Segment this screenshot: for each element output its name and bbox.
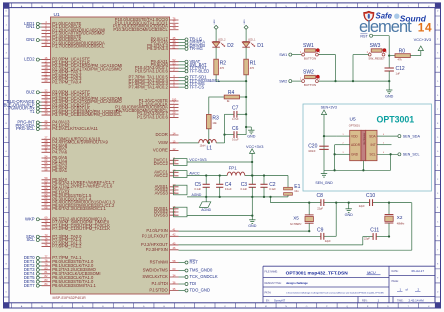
wire D2 to R2 — [215, 47, 217, 59]
svg-text:PJ.5/TDO: PJ.5/TDO — [149, 288, 168, 293]
title file name — [265, 270, 349, 276]
svg-text:P1.7/UCB0SOMI/UCB0SCL: P1.7/UCB0SOMI/UCB0SCL — [52, 44, 105, 49]
resistor R0 — [390, 48, 420, 61]
wire HFXOUT with C11 — [179, 237, 390, 245]
junction X5 top — [308, 201, 310, 203]
resistor R2 — [214, 59, 227, 75]
svg-text:2: 2 — [342, 143, 343, 145]
svg-text:GND: GND — [385, 94, 394, 98]
svg-text:10u: 10u — [294, 189, 299, 193]
terminal TFT-CS — [179, 84, 205, 89]
svg-text:TR-HG: TR-HG — [190, 46, 203, 51]
svg-text:U5: U5 — [350, 117, 356, 123]
junction C6 left rail — [223, 133, 225, 135]
resistor R1 — [244, 59, 257, 75]
wire U5 pad pin — [324, 161, 391, 171]
svg-text:14: 14 — [418, 20, 432, 34]
capacitor C20 — [308, 144, 329, 153]
svg-text:GND: GND — [351, 153, 359, 157]
svg-text:GN1: GN1 — [26, 24, 35, 29]
svg-text:LED_2: LED_2 — [218, 38, 226, 41]
terminal TFT-RST — [179, 65, 208, 70]
svg-text:VCC+3V3: VCC+3V3 — [414, 37, 431, 42]
svg-text:1uF: 1uF — [396, 72, 401, 76]
svg-text:GND: GND — [247, 135, 256, 139]
wire SW2 to rail — [318, 80, 335, 82]
wire U5 VDD pin 1 — [324, 134, 350, 136]
title by — [266, 299, 286, 303]
svg-text:SW2: SW2 — [303, 70, 314, 76]
terminal PGM/OUR-Rx — [8, 106, 41, 111]
svg-text:DCOR: DCOR — [155, 132, 167, 137]
svg-text:X5: X5 — [293, 215, 299, 220]
power VCC+3V3 at R0 — [414, 37, 431, 56]
terminal TR-LG — [179, 37, 203, 42]
wire AGND rail to DGND — [251, 197, 253, 216]
svg-text:P10.5/TA3.1/C0.6: P10.5/TA3.1/C0.6 — [135, 68, 169, 73]
svg-text:SEN_SDA: SEN_SDA — [403, 134, 421, 138]
svg-text:1: 1 — [342, 134, 343, 136]
switch SW3 — [367, 43, 388, 60]
svg-text:SW1: SW1 — [279, 53, 287, 57]
junction pad pin on gnd wire — [362, 169, 364, 171]
terminal RST — [360, 34, 389, 56]
terminal SEN_SCL — [398, 153, 420, 157]
svg-text:48MHz: 48MHz — [397, 223, 405, 226]
junction LED rail / right rail — [245, 80, 247, 82]
svg-text:design challenge: design challenge — [286, 281, 308, 285]
svg-text:RST: RST — [190, 260, 199, 265]
svg-text:E1: E1 — [294, 184, 300, 190]
wire SCL drop to gnd wire — [390, 154, 392, 170]
svg-text:47k: 47k — [398, 58, 403, 62]
svg-text:X2: X2 — [397, 215, 403, 220]
junction GND pin on addr column — [333, 153, 335, 155]
resistor R4 — [209, 90, 247, 103]
svg-text:C3: C3 — [241, 182, 248, 188]
terminal PRG-INT — [17, 120, 41, 125]
terminal BLE-ORANGE — [7, 99, 41, 104]
junction SW3 drop on rail — [352, 80, 354, 82]
svg-text:D1: D1 — [257, 43, 264, 49]
terminal DET3 — [24, 267, 42, 272]
junction gnd tap on rail — [348, 201, 350, 203]
svg-text:C4: C4 — [225, 182, 232, 188]
svg-text:T1: T1 — [30, 109, 36, 114]
svg-text:P2.7/PM_TA0.4: P2.7/PM_TA0.4 — [52, 79, 82, 84]
U1 left pin stubs with pin numbers — [42, 20, 51, 286]
junction C3 bottom — [251, 196, 253, 198]
svg-text:P7.6/PM_TA1.2: P7.6/PM_TA1.2 — [52, 244, 82, 249]
junction C5 top — [205, 174, 207, 176]
svg-text:P9.3/TA3.4: P9.3/TA3.4 — [147, 46, 168, 51]
capacitor C12 — [385, 56, 405, 90]
junction C4 bottom — [219, 196, 221, 198]
capacitor C6 — [225, 126, 247, 141]
svg-text:06-Jul-17: 06-Jul-17 — [412, 269, 425, 273]
svg-text:P8.6/UCB3SOMI/TA1.1: P8.6/UCB3SOMI/TA1.1 — [52, 283, 96, 288]
svg-text:C:\Users\element14\design chal: C:\Users\element14\design challenge\2017… — [286, 292, 384, 295]
wire HFXIN bottom loop — [179, 203, 412, 251]
svg-text:PATH:: PATH: — [265, 292, 272, 295]
terminal LED1 — [24, 21, 41, 26]
wire LED common rail — [216, 80, 246, 82]
terminal GN1 — [26, 24, 42, 29]
terminal SW1 input — [279, 53, 302, 57]
microcontroller U1 body — [51, 17, 170, 294]
capacitor C7 — [225, 106, 247, 121]
terminal SW2 input — [279, 79, 302, 83]
terminal TFT-SD1 — [179, 75, 208, 80]
OPT3001 subcircuit box — [303, 104, 432, 191]
svg-text:C11: C11 — [370, 227, 379, 233]
svg-text:GND: GND — [345, 213, 354, 217]
svg-text:100nF: 100nF — [308, 149, 316, 153]
logo amp circle — [394, 14, 399, 19]
terminal DET5 — [24, 275, 42, 280]
svg-text:of: of — [406, 288, 409, 292]
terminal BUZ — [26, 89, 41, 94]
wire D1 anode — [245, 29, 247, 41]
svg-text:0.1uF: 0.1uF — [232, 137, 239, 141]
title date — [392, 269, 425, 273]
analog ground AGND symbol — [199, 197, 211, 212]
capacitor C3 — [240, 176, 255, 197]
svg-text:SW3: SW3 — [370, 43, 381, 49]
terminal WKP — [25, 216, 41, 221]
svg-text:2:42:14 AM: 2:42:14 AM — [409, 299, 425, 303]
junction X2 bottom / C11 wire — [388, 235, 390, 237]
svg-text:4.7uF: 4.7uF — [232, 117, 239, 121]
svg-text:PRG-SCL: PRG-SCL — [16, 126, 35, 131]
title path — [265, 292, 385, 295]
svg-text:DVSS3: DVSS3 — [154, 212, 168, 217]
svg-text:PJ.1/LFXOUT: PJ.1/LFXOUT — [142, 233, 169, 238]
svg-text:SWCLKxTCK: SWCLKxTCK — [142, 274, 168, 279]
svg-text:WKP: WKP — [25, 216, 35, 221]
wire DVSS bracket — [174, 207, 253, 217]
svg-text:SEN+3V3: SEN+3V3 — [321, 106, 337, 110]
junction DVSS/AGND drop — [251, 214, 253, 216]
svg-text:470: 470 — [250, 66, 255, 70]
svg-text:4: 4 — [383, 152, 384, 154]
wire right rail — [245, 81, 247, 135]
svg-text:C2: C2 — [269, 182, 276, 188]
svg-text:0.1uF: 0.1uF — [269, 187, 276, 191]
svg-text:SW2: SW2 — [279, 79, 287, 83]
terminal TMS_GND0 — [179, 268, 213, 273]
svg-text:LED2: LED2 — [24, 57, 35, 62]
svg-text:TDI: TDI — [190, 281, 197, 286]
wire C7/C6 left rail — [224, 114, 226, 143]
svg-text:J: J — [204, 306, 205, 308]
terminal T1 — [30, 109, 42, 114]
terminal D1 top — [244, 19, 248, 29]
capacitor C2 — [260, 176, 276, 197]
ground near C6 — [246, 127, 256, 139]
svg-text:BUTTON: BUTTON — [304, 56, 316, 60]
svg-text:GN2: GN2 — [26, 37, 35, 42]
svg-text:P7.2/PM_C1OUT/PM_TA1CLK: P7.2/PM_C1OUT/PM_TA1CLK — [52, 226, 110, 231]
LED D2 — [212, 38, 234, 49]
svg-text:INT: INT — [371, 143, 376, 147]
svg-text:C10: C10 — [366, 193, 375, 199]
svg-text:REV:: REV: — [362, 300, 368, 303]
junction C3 top — [251, 174, 253, 176]
ground crystal GND — [345, 203, 354, 218]
wire U5 SDA pin 6 — [377, 134, 398, 136]
capacitor C11 — [364, 227, 379, 240]
terminal DET2 — [24, 263, 42, 268]
svg-text:P1.5/TA3.1/C0.6: P1.5/TA3.1/C0.6 — [137, 115, 168, 120]
junction C4 top — [219, 174, 221, 176]
junction VCC stem / DVCC wire — [251, 161, 253, 163]
svg-text:470: 470 — [220, 66, 225, 70]
crystal X2 — [385, 203, 406, 237]
junction C2 bottom — [263, 196, 265, 198]
terminal DRIVEB — [179, 43, 206, 48]
switch SW1 — [300, 43, 321, 60]
svg-text:C9: C9 — [317, 227, 324, 233]
svg-text:3: 3 — [342, 152, 343, 154]
ferrite bead FP1 — [227, 165, 245, 175]
U1 left internal pin names — [52, 21, 122, 288]
junction VDD on 3V3 column — [323, 135, 325, 137]
electrolytic capacitor E1 — [284, 176, 301, 197]
svg-text:DESIGN TITLE:: DESIGN TITLE: — [265, 282, 282, 285]
wire U5 GND pin 3 — [335, 152, 350, 154]
terminal DET4 — [24, 271, 42, 276]
svg-text:AGND: AGND — [201, 208, 211, 212]
capacitor C9 — [317, 227, 331, 243]
svg-text:R4: R4 — [228, 90, 235, 96]
svg-text:VCC+3V3: VCC+3V3 — [189, 157, 206, 162]
terminal PRG-SDA — [16, 123, 42, 128]
ground SEN_GND — [315, 170, 333, 185]
svg-text:ADDR: ADDR — [351, 143, 361, 147]
ground below C12 — [385, 90, 394, 98]
terminal SEN_SDA — [398, 134, 421, 138]
svg-text:SCL: SCL — [369, 153, 375, 157]
svg-text:FP1: FP1 — [229, 165, 238, 170]
wire SW1 to junction — [318, 55, 335, 82]
wire R2 bottom — [215, 75, 217, 81]
svg-text:P4.2/ACLK/TA2CLK/A11: P4.2/ACLK/TA2CLK/A11 — [52, 126, 98, 131]
svg-text:C7: C7 — [232, 106, 239, 112]
svg-text:element: element — [359, 18, 412, 36]
terminal DET0 — [24, 255, 42, 260]
wire crystal top rail — [271, 197, 412, 203]
svg-text:AGND: AGND — [192, 193, 202, 197]
svg-text:5: 5 — [383, 143, 384, 145]
svg-text:BUZ: BUZ — [26, 89, 35, 94]
wire DVCC bracket — [174, 159, 253, 166]
svg-text:0.1uF: 0.1uF — [240, 187, 247, 191]
svg-text:OPT3001 msp432_TFT.DSN: OPT3001 msp432_TFT.DSN — [286, 271, 349, 277]
svg-text:TDO_GND: TDO_GND — [190, 288, 210, 293]
svg-text:AVCC: AVCC — [189, 171, 200, 176]
wire button common rail — [336, 80, 390, 82]
terminal VBAT — [179, 59, 201, 64]
svg-text:LED1: LED1 — [244, 19, 246, 24]
svg-text:P7.4/PM_TA1.4/C0.2: P7.4/PM_TA1.4/C0.2 — [129, 84, 169, 89]
terminal PRG-SCL — [16, 126, 42, 131]
svg-text:TCK_GNDCLK: TCK_GNDCLK — [190, 274, 218, 279]
svg-text:C8: C8 — [317, 193, 324, 199]
terminal D2 top — [214, 19, 218, 29]
junction X5 bottom / LFXIN wire — [308, 230, 310, 232]
wire LFXOUT with C9 — [179, 203, 337, 237]
svg-text:D2: D2 — [227, 43, 234, 49]
svg-text:6: 6 — [383, 134, 384, 136]
terminal TFT-MOSI&SCL — [179, 78, 221, 83]
svg-text:VDD: VDD — [351, 134, 358, 138]
svg-text:OPT3001: OPT3001 — [349, 123, 361, 127]
svg-text:C5: C5 — [195, 182, 202, 188]
junction right rail at gnd tap — [245, 126, 247, 128]
svg-text:22pF: 22pF — [317, 207, 323, 211]
junction R3 bottom on VSW wire — [208, 142, 210, 144]
junction top rail / agnd rail — [269, 196, 271, 198]
terminal BLE-ORAN-RLP — [4, 102, 42, 107]
svg-text:SW_RESET: SW_RESET — [368, 56, 385, 60]
svg-text:SWDIOxTMS: SWDIOxTMS — [143, 268, 168, 273]
power SEN+3V3 — [321, 106, 337, 171]
svg-text:32.768kHz: 32.768kHz — [290, 223, 302, 226]
svg-text:0.1uF: 0.1uF — [194, 187, 201, 191]
title time — [397, 299, 424, 303]
terminal TFT-MS — [179, 81, 205, 86]
terminal SDA — [26, 234, 42, 239]
op-amp U5 OPT3001 body — [350, 130, 377, 160]
svg-text:VSW: VSW — [158, 140, 168, 145]
switch SW2 — [300, 70, 321, 87]
terminal TDI — [179, 281, 197, 286]
svg-text:C20: C20 — [308, 144, 317, 150]
svg-text:R2: R2 — [220, 60, 227, 66]
ground DGND — [248, 216, 257, 229]
svg-text:PJ.4/TDI: PJ.4/TDI — [152, 281, 168, 286]
terminal DET6 — [24, 279, 42, 284]
junction rail to C12 column — [388, 80, 390, 82]
svg-text:LED_1: LED_1 — [248, 38, 256, 41]
svg-text:0.1uF: 0.1uF — [225, 187, 232, 191]
svg-text:SDA: SDA — [369, 134, 376, 138]
terminal TFT-BLED — [179, 68, 210, 73]
svg-text:VCC+3V3: VCC+3V3 — [246, 144, 263, 149]
svg-text:SW1: SW1 — [303, 43, 314, 49]
svg-text:TMS_GND0: TMS_GND0 — [190, 268, 213, 273]
svg-text:THERMAL PAD: THERMAL PAD — [362, 133, 365, 146]
terminal LED2 — [24, 57, 41, 62]
svg-text:P10.3/UCB3SOMI/UCB3SCL: P10.3/UCB3SOMI/UCB3SCL — [113, 27, 168, 32]
junction C5 bottom — [205, 196, 207, 198]
wire U5 INT pin 5 — [377, 143, 392, 145]
junction pad/addr gnd node — [333, 169, 335, 171]
title MCU link — [367, 271, 381, 275]
svg-text:P4.7/A6: P4.7/A6 — [52, 149, 68, 154]
svg-text:10k: 10k — [212, 121, 217, 125]
svg-text:22pF: 22pF — [325, 239, 331, 243]
svg-text:DET7: DET7 — [24, 283, 35, 288]
junction VCC stem / AVCC rail — [251, 174, 253, 176]
capacitor C4 — [216, 176, 232, 197]
svg-text:SCL: SCL — [26, 237, 35, 242]
U1 right pin stubs with pin numbers — [170, 16, 179, 291]
junction C7 right rail — [245, 113, 247, 115]
svg-text:AVSS3: AVSS3 — [155, 190, 169, 195]
title rev — [362, 299, 380, 303]
svg-text:L1: L1 — [207, 146, 213, 152]
svg-text:J: J — [204, 6, 205, 8]
terminal GN2 — [26, 37, 42, 42]
svg-text:P5.4/A1: P5.4/A1 — [52, 168, 68, 173]
terminal TR-HG — [179, 46, 203, 51]
svg-text:C6: C6 — [232, 126, 239, 132]
terminal TDO_GND — [179, 288, 210, 293]
svg-text:OPT3001: OPT3001 — [377, 114, 415, 124]
title design title — [265, 281, 309, 285]
power VCC+3V3 arrow near C3 — [246, 144, 263, 176]
svg-text:22pF: 22pF — [359, 204, 365, 208]
wire D1 to R1 — [245, 47, 247, 59]
terminal TCK_GNDCLK — [179, 274, 218, 279]
svg-text:R1: R1 — [250, 60, 257, 66]
capacitor C10 — [359, 193, 376, 208]
svg-text:BY:: BY: — [266, 300, 270, 303]
svg-text:BUTTON: BUTTON — [304, 83, 316, 87]
svg-text:LED2: LED2 — [214, 19, 216, 24]
svg-text:SEN_SCL: SEN_SCL — [403, 153, 420, 157]
wire LFXIN from U1 — [179, 230, 310, 232]
U1 right internal pin names — [113, 17, 169, 293]
svg-text:TFT-CS: TFT-CS — [190, 84, 205, 89]
capacitor C8 — [317, 193, 324, 210]
svg-text:10uH: 10uH — [200, 144, 206, 147]
wire U5 SCL pin 4 — [377, 152, 398, 154]
svg-text:TFT-BLED: TFT-BLED — [190, 68, 210, 73]
resistor R3 — [207, 97, 220, 143]
svg-text:FILE NAME:: FILE NAME: — [265, 270, 279, 273]
wire SW3 pin1 down — [353, 55, 369, 82]
terminal RST — [179, 260, 199, 265]
junction X2 top — [388, 201, 390, 203]
junction SCL tap — [389, 153, 391, 155]
title page — [392, 280, 421, 292]
svg-text:MSP-EXP432P401R: MSP-EXP432P401R — [53, 296, 87, 300]
junction C9 riser on top rail — [335, 201, 337, 203]
svg-text:R3: R3 — [212, 116, 219, 122]
wire R1 bottom — [245, 75, 247, 81]
svg-text:R0: R0 — [399, 48, 406, 54]
terminal DET1 — [24, 259, 42, 264]
terminal SCL — [26, 237, 41, 242]
svg-text:MCU: MCU — [367, 271, 376, 275]
svg-text:SunnyNT: SunnyNT — [274, 299, 286, 303]
svg-text:P3.7/PM_UCB2SOMI/PM_UCB2SCL: P3.7/PM_UCB2SOMI/PM_UCB2SCL — [52, 112, 122, 117]
terminal SW_BAT — [179, 62, 207, 67]
svg-text:DATE:: DATE: — [392, 270, 399, 273]
wire AVSS bracket and AGND rail — [174, 185, 289, 197]
svg-text:GND: GND — [248, 224, 257, 228]
junction SW1 drop — [334, 80, 336, 82]
svg-text:22pF: 22pF — [364, 236, 370, 240]
terminal DRIVEA — [179, 40, 206, 45]
LED D1 — [242, 38, 264, 49]
svg-text:SEN_GND: SEN_GND — [315, 181, 333, 185]
wire AVCC bracket and rail — [174, 171, 289, 178]
svg-text:VCORE: VCORE — [153, 148, 168, 153]
